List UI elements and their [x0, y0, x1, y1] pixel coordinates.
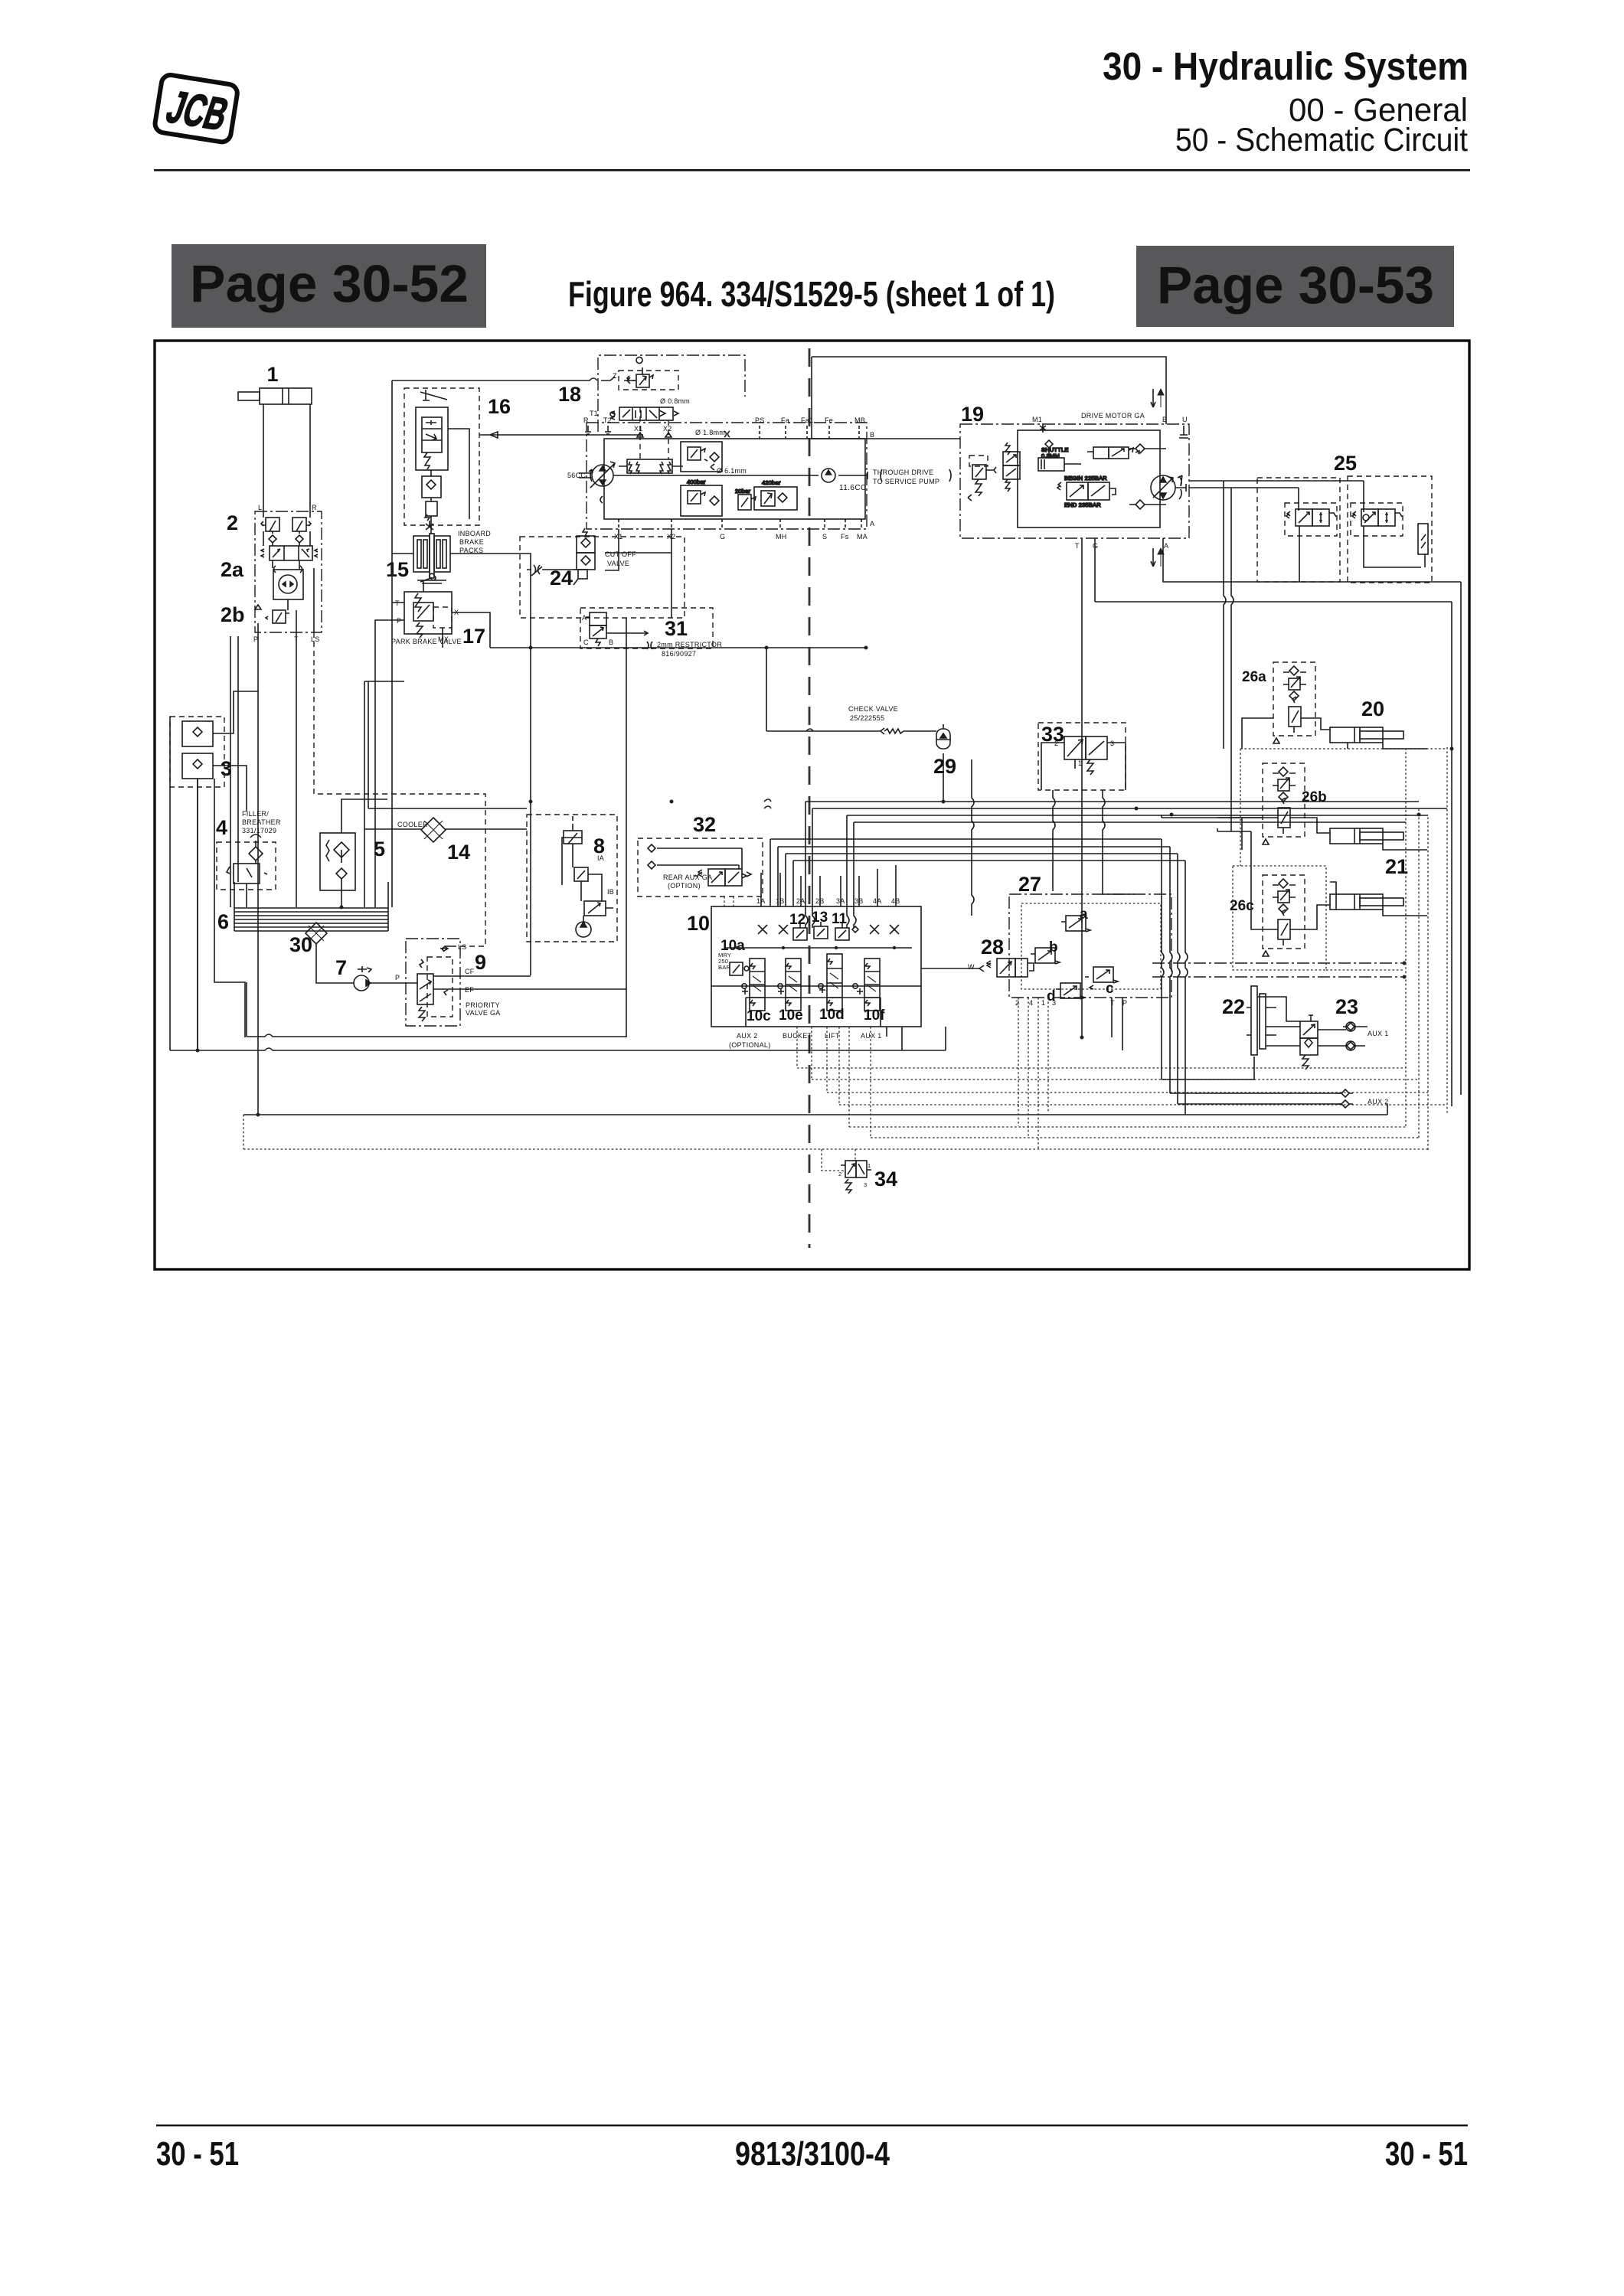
- svg-text:LS: LS: [311, 635, 320, 643]
- dash-dot end dots: [1403, 962, 1407, 979]
- svg-text:14: 14: [447, 841, 470, 864]
- dash-dot 27 T P to right: [1152, 963, 1404, 977]
- 22 23 wires: [1257, 997, 1367, 1046]
- svg-text:10: 10: [687, 912, 710, 935]
- right dotted riser x1853: [1418, 808, 1420, 1138]
- travel lines to 25: [1189, 481, 1425, 831]
- aux2 couplers: [1338, 1089, 1353, 1108]
- bundle B left drops: [770, 839, 793, 906]
- svg-text:T: T: [395, 599, 400, 607]
- 20 rod line: [1348, 743, 1427, 749]
- 32 pilot stubs: [724, 897, 734, 906]
- cooler 14: [421, 818, 446, 842]
- 27 bottom pin drops: [1018, 998, 1048, 1150]
- steer valve block 2 boundary: [255, 511, 322, 632]
- svg-text:22: 22: [1222, 995, 1245, 1018]
- svg-text:INBOARD: INBOARD: [458, 530, 491, 537]
- valve block 10: [711, 906, 921, 1027]
- 27 pin labels: [1015, 999, 1127, 1007]
- svg-text:CUT OFF: CUT OFF: [605, 550, 636, 558]
- X1 pilot line: [605, 529, 619, 570]
- check valve text: [848, 705, 898, 722]
- feed 26b: [1162, 815, 1263, 818]
- shuttle check under 16: [422, 476, 441, 521]
- svg-text:9: 9: [475, 951, 486, 974]
- svg-text:21: 21: [1385, 855, 1408, 878]
- svg-text:R: R: [312, 504, 317, 511]
- pilot check unit 3: [170, 717, 224, 787]
- lock valve 26c outer: [1233, 866, 1326, 970]
- svg-text:17: 17: [462, 625, 485, 648]
- svg-text:1: 1: [868, 1162, 871, 1169]
- park brake valve 17: [391, 573, 462, 645]
- pilot valve block 27: [1009, 894, 1171, 998]
- section names under 10: [729, 1032, 882, 1049]
- spool 10e: [778, 959, 801, 1011]
- priority valve pipes: [433, 946, 626, 989]
- bus y1372 left: [170, 1027, 946, 1050]
- bundle A left drops: [805, 802, 856, 928]
- svg-text:1: 1: [1041, 999, 1045, 1007]
- relief cluster 420bar: [754, 479, 797, 510]
- svg-text:31: 31: [665, 617, 688, 640]
- spool inlet circles: [742, 984, 858, 988]
- motor 19 relief: [968, 456, 996, 501]
- svg-text:T2: T2: [603, 416, 612, 424]
- svg-text:Ø 1.8mm: Ø 1.8mm: [695, 429, 725, 436]
- right rail dotted: [1446, 747, 1448, 1115]
- pump 18 pilot solenoid valve: [610, 371, 678, 420]
- pump top ports: [755, 416, 874, 439]
- cylinder 21b: [1330, 894, 1403, 910]
- pump to priority valve: [369, 982, 417, 984]
- svg-text:816/90927: 816/90927: [662, 650, 696, 658]
- svg-text:29: 29: [933, 755, 956, 778]
- svg-text:4: 4: [1029, 999, 1033, 1007]
- strainer 30: [306, 923, 327, 944]
- lower frame line: [247, 982, 626, 1037]
- dotted shelf under 26a: [1240, 748, 1447, 750]
- svg-text:BEGIN 225BAR: BEGIN 225BAR: [1064, 475, 1107, 482]
- steer motor 2b: [273, 566, 303, 599]
- motor shuttle: [1038, 440, 1081, 471]
- svg-text:Fs: Fs: [841, 533, 849, 541]
- svg-text:T: T: [1075, 542, 1080, 550]
- svg-text:2: 2: [1054, 740, 1058, 747]
- svg-text:50 - Schematic Circuit: 50 - Schematic Circuit: [1175, 122, 1468, 158]
- motor check bottom: [1129, 500, 1166, 509]
- svg-text:T1: T1: [590, 410, 598, 417]
- crossing riser x1440: [1103, 790, 1135, 894]
- suspension solenoid box 25 right: [1348, 476, 1432, 583]
- pump bottom port stubs: [619, 519, 861, 529]
- dotted staircase buses: [797, 1068, 1447, 1105]
- through drive shaft: [868, 469, 951, 482]
- svg-text:W: W: [968, 963, 975, 971]
- svg-text:10c: 10c: [747, 1008, 771, 1024]
- motor unit circle: [1151, 475, 1186, 500]
- svg-text:2: 2: [838, 1171, 841, 1177]
- right dotted riser x1836: [1405, 749, 1407, 1126]
- accumulator 29: [936, 724, 950, 749]
- steer directional valve 2a: [261, 546, 318, 560]
- motor A drop: [1163, 538, 1461, 582]
- wire T from 2 to tank: [296, 632, 297, 907]
- svg-text:3: 3: [1052, 999, 1056, 1007]
- svg-text:30 - Hydraulic System: 30 - Hydraulic System: [1103, 44, 1469, 88]
- svg-text:END 235BAR: END 235BAR: [1064, 501, 1101, 508]
- svg-text:A: A: [870, 520, 874, 527]
- svg-text:2b: 2b: [221, 603, 245, 626]
- bus y1501 dotted: [243, 1115, 1428, 1149]
- bundle A lines: [805, 802, 1447, 822]
- svg-text:P: P: [1122, 999, 1127, 1007]
- relief cluster lower: [681, 478, 722, 516]
- accumulator valve 33: [1038, 723, 1126, 790]
- svg-text:LS: LS: [458, 943, 467, 951]
- spool 10f: [857, 959, 880, 1011]
- wire filter to tank: [341, 799, 387, 907]
- svg-text:Page 30-52: Page 30-52: [190, 254, 469, 313]
- arrow into 16: [479, 432, 643, 438]
- 2mm restrictor note: [647, 641, 722, 658]
- suspension solenoid box 25 left: [1257, 478, 1340, 582]
- svg-text:10d: 10d: [819, 1007, 845, 1023]
- bundle B right drops: [1162, 839, 1188, 1115]
- flow arrows at A: [1151, 548, 1164, 567]
- 18 B line: [866, 438, 960, 439]
- svg-text:30 - 51: 30 - 51: [1385, 2135, 1468, 2173]
- hand pump unit 8: [527, 815, 617, 942]
- svg-text:MB: MB: [854, 416, 865, 424]
- wire left drop from 3: [197, 779, 198, 1050]
- spool 10d: [819, 954, 842, 1011]
- 34 connection dotted: [822, 1149, 855, 1171]
- svg-text:Fa: Fa: [781, 416, 789, 424]
- svg-text:BRAKE: BRAKE: [459, 538, 484, 546]
- wire 16 internals: [431, 429, 469, 534]
- svg-text:(OPTION): (OPTION): [668, 882, 701, 890]
- wire from 3 to pump feed: [214, 779, 245, 1037]
- svg-text:18: 18: [558, 383, 581, 406]
- 28 wire: [921, 968, 979, 969]
- pump shaft: [579, 473, 868, 478]
- svg-text:331/17029: 331/17029: [242, 827, 276, 834]
- inboard brake packs text: [458, 530, 491, 554]
- svg-text:M1: M1: [1032, 416, 1042, 423]
- svg-text:7: 7: [335, 956, 347, 979]
- pump 18 top relief: [627, 358, 653, 387]
- svg-text:EF: EF: [465, 986, 474, 994]
- svg-text:20: 20: [1361, 697, 1384, 720]
- svg-text:9813/3100-4: 9813/3100-4: [735, 2135, 890, 2173]
- pilot valve a: [1061, 916, 1090, 932]
- lock valve 26c: [1263, 875, 1305, 956]
- left rail from 3: [169, 717, 171, 1050]
- svg-text:11.6CC: 11.6CC: [839, 484, 867, 492]
- aux2 feed wires: [1162, 1057, 1341, 1104]
- accumulator drop: [943, 753, 944, 802]
- hydraulic tank 6: [234, 882, 388, 931]
- pilot relief 12: [793, 923, 807, 940]
- svg-text:20bar: 20bar: [735, 488, 750, 495]
- solenoid valve 28: [979, 959, 1034, 977]
- svg-text:Fe: Fe: [825, 416, 833, 424]
- pump top port stubs: [760, 426, 859, 439]
- svg-text:B: B: [609, 639, 613, 646]
- vent symbol at P: [255, 605, 261, 609]
- svg-text:15: 15: [386, 558, 409, 581]
- svg-text:X2: X2: [663, 425, 672, 433]
- svg-text:3: 3: [1110, 740, 1114, 747]
- svg-text:PARK BRAKE VALVE: PARK BRAKE VALVE: [391, 638, 462, 645]
- top port labels 10: [756, 897, 900, 905]
- pump bottom ports: [614, 520, 874, 541]
- svg-text:U: U: [1182, 416, 1188, 423]
- svg-text:P: P: [395, 974, 400, 981]
- motor inner frame: [1018, 430, 1160, 527]
- right dotted riser x1865: [1427, 815, 1429, 1150]
- restrictor line: [490, 648, 866, 731]
- relief valves in 2: [261, 518, 311, 531]
- svg-text:16: 16: [488, 395, 511, 418]
- orifice 1.8mm: [695, 429, 730, 437]
- brake packs 15: [413, 521, 450, 583]
- 21b feed: [1330, 882, 1427, 916]
- svg-text:1: 1: [266, 363, 278, 386]
- check diamonds in 2: [269, 531, 303, 546]
- 27 TP drops: [1112, 998, 1122, 1050]
- cooler pipes: [364, 828, 527, 830]
- svg-text:400bar: 400bar: [687, 478, 706, 485]
- svg-text:10e: 10e: [779, 1008, 803, 1024]
- svg-text:Ø 6.1mm: Ø 6.1mm: [717, 467, 747, 475]
- wires inside block 2: [258, 511, 314, 632]
- cutoff to X2: [605, 552, 671, 554]
- svg-text:BREATHER: BREATHER: [242, 818, 281, 826]
- svg-text:PRIORITY: PRIORITY: [466, 1001, 500, 1009]
- svg-text:Figure 964. 334/S1529-5 (sheet: Figure 964. 334/S1529-5 (sheet 1 of 1): [568, 274, 1055, 314]
- JCB logo: [154, 73, 239, 143]
- pilot valve c: [1085, 967, 1118, 989]
- wire P from 2 down: [257, 632, 259, 1115]
- svg-text:3: 3: [864, 1181, 867, 1188]
- svg-text:34: 34: [874, 1168, 897, 1190]
- svg-text:10f: 10f: [864, 1008, 885, 1024]
- priority valve 9: [406, 939, 501, 1026]
- check valve symbol: [766, 728, 936, 734]
- 10 bottom drops solid: [887, 1027, 902, 1050]
- svg-text:BAR: BAR: [718, 964, 730, 971]
- svg-text:AUX 1: AUX 1: [861, 1032, 882, 1040]
- svg-text:MH: MH: [776, 533, 787, 541]
- flow arrows at B: [1151, 389, 1164, 407]
- brake charge valve 16: [416, 390, 448, 476]
- motor brake valve: [1057, 475, 1116, 508]
- centre split dashed line: [809, 348, 811, 1248]
- 21a feed: [1383, 844, 1427, 850]
- pump 18 inner box: [604, 439, 865, 519]
- page box right: [1136, 246, 1454, 327]
- pump pilot texts: [660, 397, 690, 405]
- crossing riser x1269: [972, 759, 974, 916]
- right rail solid 2: [1460, 582, 1462, 1095]
- through drive text: [873, 469, 939, 485]
- gear pump 7: [354, 966, 371, 991]
- pilot relief 13: [814, 922, 828, 939]
- svg-text:S: S: [822, 533, 827, 541]
- lock valve 26b: [1263, 763, 1305, 844]
- svg-text:R: R: [583, 416, 589, 424]
- right rail solid 1: [1451, 602, 1452, 1106]
- svg-text:0.3MM: 0.3MM: [1041, 452, 1060, 459]
- svg-text:DRIVE MOTOR GA: DRIVE MOTOR GA: [1081, 412, 1145, 420]
- return rail to tank: [364, 681, 404, 907]
- header rule: [154, 169, 1470, 171]
- svg-text:IB: IB: [607, 888, 614, 896]
- motor ports: [1075, 416, 1188, 550]
- drain symbols: [585, 426, 611, 434]
- svg-text:Ø 0.8mm: Ø 0.8mm: [660, 397, 690, 405]
- svg-text:CF: CF: [465, 968, 475, 975]
- M1 check: [1040, 423, 1046, 433]
- 26b cylinder link: [1217, 818, 1330, 850]
- lock valve 26a: [1273, 662, 1315, 743]
- wire breather to tank: [247, 861, 256, 907]
- 18 top B riser: [812, 357, 1166, 439]
- svg-text:TO SERVICE PUMP: TO SERVICE PUMP: [873, 478, 939, 485]
- variable pump 18 main boundary: [587, 423, 867, 529]
- suction to pump: [316, 944, 354, 983]
- brake charge valve 16 boundary: [404, 388, 479, 525]
- pilot valve d: [1056, 983, 1085, 999]
- X1 X2 spool labels: [634, 425, 672, 433]
- wire cylinder1 to valve2: [263, 404, 310, 511]
- cut off valve 24: [520, 528, 685, 618]
- bus y1486 dotted: [871, 1137, 1419, 1138]
- motor check top: [1129, 444, 1166, 453]
- svg-text:L: L: [258, 504, 262, 511]
- svg-text:T: T: [1110, 999, 1115, 1007]
- drive motor 19 boundary: [960, 424, 1189, 538]
- park brake valve pipes: [375, 603, 490, 907]
- ports T1 R T2: [583, 410, 612, 424]
- filler breather 4: [217, 834, 276, 890]
- brake pack pipes: [392, 554, 531, 599]
- hitch valve 23: [1300, 1015, 1318, 1070]
- svg-text:12: 12: [789, 912, 805, 928]
- junction dots: [196, 646, 1454, 1117]
- svg-text:c: c: [1106, 981, 1114, 997]
- 16 left rail: [392, 377, 635, 907]
- svg-text:P: P: [397, 617, 401, 625]
- wire LS dashed from 2: [314, 632, 485, 946]
- svg-text:6: 6: [217, 910, 229, 933]
- motor T drop: [1081, 538, 1083, 1037]
- charge pump 11.6CC: [822, 469, 835, 482]
- bus y1456: [243, 1104, 1387, 1115]
- feed 26c riser: [1217, 828, 1251, 831]
- svg-text:CHECK VALVE: CHECK VALVE: [848, 705, 898, 713]
- relief cluster upper: [681, 442, 722, 472]
- svg-text:PS: PS: [755, 416, 765, 424]
- 26a cylinder link: [1242, 718, 1330, 749]
- brake switch valve 34: [841, 1161, 871, 1194]
- svg-text:IA: IA: [597, 854, 604, 862]
- svg-text:23: 23: [1335, 995, 1358, 1018]
- svg-text:26b: 26b: [1302, 789, 1327, 805]
- dotted riser 26c: [1240, 749, 1241, 866]
- motor 3way valve: [1003, 443, 1020, 492]
- cylinder 1: [238, 388, 312, 404]
- svg-text:25/222555: 25/222555: [850, 714, 884, 722]
- svg-text:26a: 26a: [1242, 669, 1266, 685]
- svg-text:C: C: [583, 639, 589, 646]
- crossing riser x1375: [1053, 790, 1055, 891]
- bus y1472 dotted: [849, 1126, 1406, 1128]
- svg-text:Z: Z: [613, 372, 617, 380]
- svg-text:MA: MA: [857, 533, 868, 541]
- cylinder 20: [1330, 727, 1403, 743]
- wires unit 3: [198, 691, 258, 1050]
- small relief 20bar: [735, 488, 756, 510]
- svg-text:2: 2: [227, 511, 238, 534]
- svg-text:25: 25: [1334, 452, 1357, 475]
- inline throttle in 24: [531, 565, 542, 576]
- anticav crosses: [758, 925, 899, 934]
- solenoid valve 31: [580, 608, 713, 648]
- MRY relief: [718, 952, 749, 975]
- motor G drop: [1095, 538, 1452, 602]
- svg-text:32: 32: [693, 813, 716, 836]
- variable pump 18 boundary top: [598, 355, 745, 432]
- spool 10c: [742, 959, 765, 1011]
- quick hitch rams 22: [1247, 986, 1276, 1055]
- gallery lines in 10: [711, 948, 921, 986]
- svg-text:11: 11: [832, 911, 848, 927]
- page box left: [172, 244, 486, 328]
- return line left: [368, 681, 527, 808]
- X2 pilot line: [671, 529, 672, 618]
- svg-text:REAR AUX GA: REAR AUX GA: [663, 874, 712, 881]
- svg-text:G: G: [720, 533, 725, 541]
- wire 15 to bundle: [530, 599, 531, 975]
- valve block sub frame: [746, 998, 881, 1027]
- relief valve bottom of 2: [266, 610, 289, 623]
- svg-text:X1: X1: [634, 425, 643, 433]
- 33 drops: [1041, 743, 1126, 790]
- schematic frame: [155, 341, 1469, 1269]
- footer rule: [156, 2125, 1468, 2126]
- motor solenoid valve: [1087, 447, 1139, 459]
- aux1 couplers: [1343, 1022, 1359, 1050]
- svg-text:2a: 2a: [221, 558, 244, 581]
- left return verticals: [230, 636, 238, 907]
- 26c cylinder link: [1251, 831, 1330, 929]
- gallery dots: [736, 946, 896, 949]
- svg-text:VALVE GA: VALVE GA: [466, 1009, 501, 1017]
- svg-text:A: A: [1164, 542, 1168, 550]
- rear aux option 32: [638, 838, 763, 897]
- cylinder 21a: [1330, 828, 1403, 844]
- orifice 6.1mm: [711, 464, 747, 475]
- 34 pin labels: [838, 1162, 871, 1188]
- svg-text:AUX 2: AUX 2: [737, 1032, 758, 1040]
- svg-text:FILLER/: FILLER/: [242, 810, 269, 818]
- svg-text:27: 27: [1018, 873, 1041, 896]
- pilot relief 11: [835, 923, 849, 940]
- svg-text:30 - 51: 30 - 51: [156, 2135, 239, 2173]
